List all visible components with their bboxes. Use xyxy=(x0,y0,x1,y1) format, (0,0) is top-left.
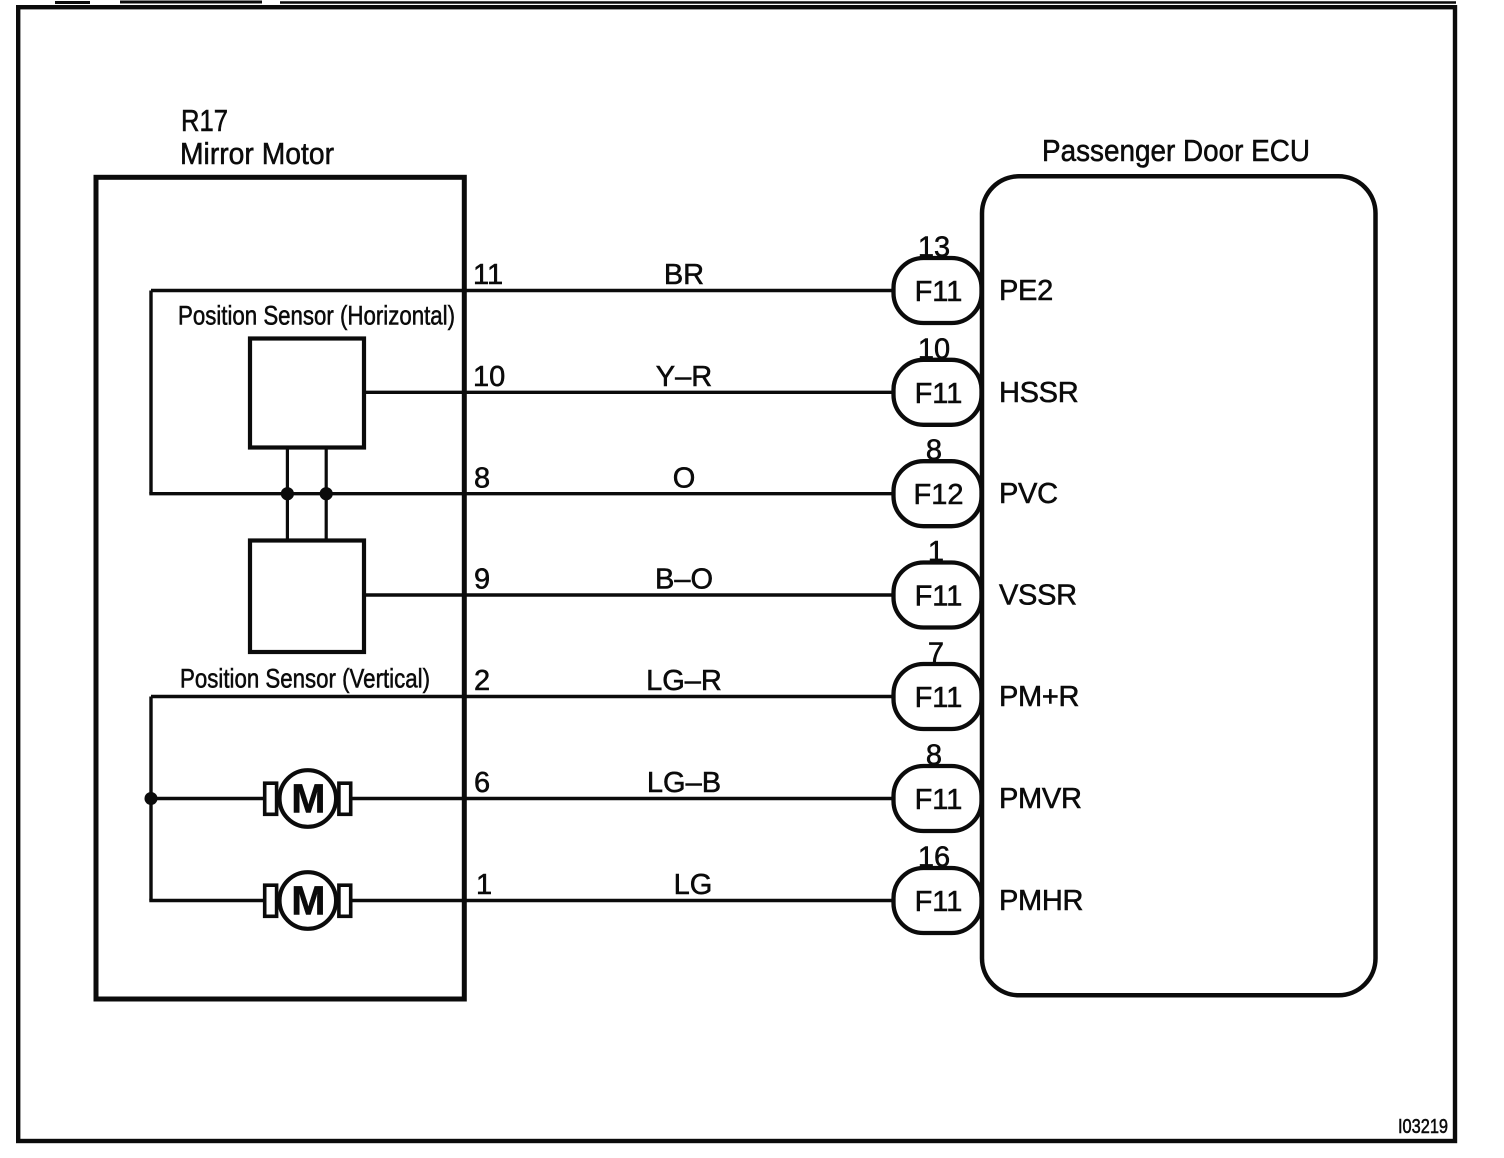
svg-text:Mirror Motor: Mirror Motor xyxy=(180,136,334,171)
wire: left vertical bus x=151 joining BR wire to O wire xyxy=(149,291,152,494)
svg-text:O: O xyxy=(673,462,696,494)
position sensor PS1 (horizontal) body xyxy=(250,339,364,448)
svg-text:1: 1 xyxy=(476,869,492,901)
wire LG-B left stub: from junction to motor M1 xyxy=(151,797,266,800)
wire LG: from motor M2 to connector F11 pin 16, y=900.5 xyxy=(350,899,894,902)
wire Y-R: from position sensor (horizontal) right pin to connector F11 pin 10 xyxy=(363,391,894,394)
connector F11 pin 1 (oval) xyxy=(894,563,982,628)
svg-text:HSSR: HSSR xyxy=(999,377,1078,409)
position sensor PS2 (vertical) body xyxy=(250,541,364,653)
connector F11 pin 10 (oval) xyxy=(894,360,982,425)
svg-text:Position Sensor (Horizontal): Position Sensor (Horizontal) xyxy=(178,301,455,331)
svg-text:Y–R: Y–R xyxy=(656,361,712,393)
svg-text:F11: F11 xyxy=(915,581,963,613)
svg-text:M: M xyxy=(291,878,325,924)
wire B-O: from position sensor (vertical) right pin to connector F11 pin 1 xyxy=(363,593,894,596)
scan noise line along top edge xyxy=(55,1,1456,5)
svg-text:8: 8 xyxy=(926,740,942,772)
junction node: sensor pin 1 on O wire xyxy=(281,487,294,500)
motor M2 (vertical mirror motor) xyxy=(265,872,351,929)
svg-text:LG–B: LG–B xyxy=(647,767,721,799)
svg-text:1: 1 xyxy=(928,536,944,568)
svg-text:B–O: B–O xyxy=(655,564,713,596)
svg-text:7: 7 xyxy=(928,638,944,670)
connector F11 pin 8 (oval) xyxy=(894,766,982,831)
wire BR: net from node A loop to connector F11 pin 13, y=290.5 xyxy=(151,289,894,292)
svg-text:VSSR: VSSR xyxy=(999,580,1077,612)
svg-text:LG–R: LG–R xyxy=(646,665,722,697)
svg-text:2: 2 xyxy=(474,665,490,697)
svg-text:11: 11 xyxy=(473,259,503,291)
svg-text:BR: BR xyxy=(664,259,704,291)
connector F11 pin 7 (oval) xyxy=(894,664,982,729)
motor M1 (horizontal mirror motor) xyxy=(265,770,351,827)
wire O: net from vertical bus through sensor pins to connector F12 pin 8, y=493.7 xyxy=(149,492,893,495)
svg-text:M: M xyxy=(291,776,325,822)
svg-text:8: 8 xyxy=(926,435,942,467)
svg-text:PMHR: PMHR xyxy=(999,885,1083,917)
svg-text:F12: F12 xyxy=(914,479,964,511)
svg-text:LG: LG xyxy=(674,869,713,901)
junction node: sensor pin 2 on O wire xyxy=(320,487,333,500)
ECU box U1 Passenger Door ECU xyxy=(982,176,1376,995)
svg-text:PVC: PVC xyxy=(999,478,1058,510)
svg-text:F11: F11 xyxy=(915,886,963,918)
svg-text:R17: R17 xyxy=(181,103,228,138)
svg-text:8: 8 xyxy=(474,462,490,494)
connector F11 pin 13 (oval) xyxy=(894,258,982,323)
svg-text:I03219: I03219 xyxy=(1398,1116,1448,1138)
svg-text:Position Sensor (Vertical): Position Sensor (Vertical) xyxy=(180,664,430,694)
component R17 Mirror Motor box xyxy=(96,177,464,999)
svg-text:6: 6 xyxy=(474,767,490,799)
svg-text:PE2: PE2 xyxy=(999,275,1053,307)
wire LG-B: from motor M1 to connector F11 pin 8, y=798.5 xyxy=(350,797,894,800)
wire LG-R: net from lower vertical bus to connector F11 pin 7, y=696.5 xyxy=(151,695,894,698)
svg-text:F11: F11 xyxy=(915,682,963,714)
connector F11 pin 16 (oval) xyxy=(894,868,982,933)
svg-text:9: 9 xyxy=(474,564,490,596)
wire LG left stub: from vertical bus to motor M2 xyxy=(149,899,266,902)
svg-text:10: 10 xyxy=(918,333,950,365)
svg-text:13: 13 xyxy=(918,232,950,264)
svg-text:F11: F11 xyxy=(915,378,963,410)
wire: position sensor (horizontal) lower pin 2, x=326.2 xyxy=(325,448,328,541)
connector F12 pin 8 (oval) xyxy=(894,461,982,526)
svg-text:10: 10 xyxy=(473,361,505,393)
wire: position sensor (horizontal) lower pin 1, x=287.4 xyxy=(286,448,289,541)
wire: lower left vertical bus x=151 joining LG-R wire to LG wire xyxy=(149,697,152,901)
junction node: motor M1 tap on vertical bus xyxy=(145,792,158,805)
svg-text:Passenger Door ECU: Passenger Door ECU xyxy=(1042,133,1310,168)
svg-text:F11: F11 xyxy=(915,784,963,816)
svg-text:16: 16 xyxy=(918,842,950,874)
svg-text:PMVR: PMVR xyxy=(999,783,1082,815)
svg-text:F11: F11 xyxy=(915,276,963,308)
svg-text:PM+R: PM+R xyxy=(999,681,1079,713)
